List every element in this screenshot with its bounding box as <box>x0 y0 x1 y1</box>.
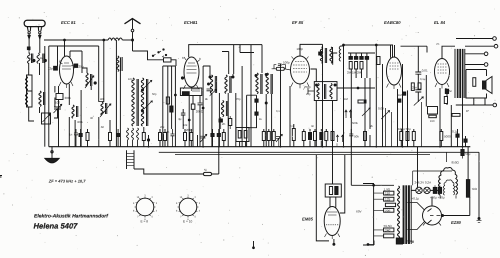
FM dipole antenna arrow <box>125 19 141 24</box>
svg-text:300k: 300k <box>65 96 72 100</box>
cap row c8 stubs <box>465 136 467 147</box>
ECH81 internal electrodes <box>187 63 197 73</box>
third bus <box>175 154 430 156</box>
heater choke b <box>132 128 134 147</box>
EZ80 anode bars <box>428 209 441 224</box>
IF2b core <box>271 74 272 94</box>
wire EM bottom stub <box>333 239 335 244</box>
padder comb stub <box>221 116 231 129</box>
wire ECH v6b <box>192 109 194 146</box>
speaker line 0 <box>456 38 493 40</box>
cathode resistor h1 <box>429 115 437 118</box>
res row r19 stubs <box>364 129 366 147</box>
res row r22 stubs <box>413 129 415 147</box>
comb res 1 <box>349 62 352 70</box>
wire EF v5 <box>315 101 317 147</box>
IF2a dot <box>255 75 257 77</box>
coupling cap 0.01 <box>415 72 421 74</box>
comb drop 2 <box>355 53 357 57</box>
osc box hatch <box>192 89 200 91</box>
wire EL v3 <box>462 98 464 147</box>
wire EL v1 <box>439 88 441 147</box>
svg-text:1,9Ω: 1,9Ω <box>384 187 391 191</box>
wire PSU feed h <box>351 184 394 186</box>
EM box capacitor <box>335 187 338 195</box>
wire EF v2 <box>271 94 273 147</box>
res row r14 <box>309 133 312 140</box>
trimmer t2 stub <box>278 138 280 146</box>
var coil L5 <box>101 102 103 115</box>
res row r6 <box>184 133 187 141</box>
output transformer bar 2 <box>459 49 461 98</box>
res row r5 <box>164 133 167 141</box>
cap row c3 stubs <box>117 129 119 147</box>
EF85 pins <box>291 57 309 89</box>
choke feed wire <box>446 152 448 162</box>
res row r7 stubs <box>190 129 192 147</box>
heater wire to EZ80 <box>408 203 425 230</box>
grid network box <box>428 107 438 115</box>
output transformer bar 1 <box>457 49 459 98</box>
svg-text:EABC80: EABC80 <box>384 20 401 25</box>
power transformer core bar 2 <box>405 185 407 244</box>
wire v1 <box>44 46 46 147</box>
wire det left <box>308 88 314 94</box>
res row r9 <box>262 132 265 141</box>
heater choke c <box>137 128 139 147</box>
oscillator padder block <box>182 92 189 96</box>
antenna lead left <box>28 34 30 53</box>
wire antenna to RF bus <box>44 39 108 41</box>
mid coil core <box>44 92 45 105</box>
FM dipole mast <box>132 20 134 52</box>
svg-text:E = 8: E = 8 <box>141 220 149 224</box>
bus junction dots <box>148 146 464 148</box>
AM det cap 2 stub <box>247 115 257 128</box>
cap row c3 <box>117 134 120 137</box>
svg-text:200Ω: 200Ω <box>196 110 204 114</box>
cap 50k stubs <box>350 129 352 147</box>
osc block cap black <box>170 106 173 112</box>
wire cathode net <box>58 86 60 147</box>
svg-text:EZ80: EZ80 <box>451 220 462 225</box>
tap box 220 <box>384 208 394 212</box>
wire choke frame <box>333 46 344 65</box>
wire EF v10 <box>369 78 371 129</box>
tone pot 0,04 arrow <box>381 111 389 119</box>
trimmer t1 stub <box>202 138 204 147</box>
wire EL v4 <box>473 98 475 105</box>
wire cap drop <box>57 46 59 66</box>
ratio det dot a <box>316 84 318 86</box>
wire ECH v10 <box>241 66 243 147</box>
cap row c2 stubs <box>80 129 82 147</box>
wire v5 <box>80 90 82 147</box>
primary rail left <box>373 184 375 246</box>
tap ticks to rail <box>374 193 384 236</box>
left bandfilter coil 2 <box>27 91 33 107</box>
svg-text:70p: 70p <box>236 98 241 101</box>
svg-text:250p: 250p <box>304 85 311 89</box>
EZ80 pins <box>423 223 441 226</box>
speaker terminal 0 <box>493 37 497 41</box>
AM det cap 1 stub <box>256 102 258 112</box>
IF1 dot primary <box>209 76 211 78</box>
primary block bottom <box>396 238 402 244</box>
switch block box <box>236 128 249 142</box>
wire k2 <box>54 86 56 93</box>
res row r17 stubs <box>325 129 327 147</box>
wire anode frame top <box>49 45 99 47</box>
svg-text:E = 10: E = 10 <box>183 220 193 224</box>
wire EABC v6 <box>425 75 427 107</box>
EM85 pins <box>325 234 340 240</box>
wire cap to pot <box>417 74 419 102</box>
filter cap 50u b <box>438 187 441 193</box>
speaker line 3 <box>465 64 484 66</box>
var coil L5 core <box>106 103 107 114</box>
wire EL84 anode up <box>442 46 455 58</box>
cap row c7 stubs <box>457 129 459 147</box>
wire v4 <box>74 120 76 147</box>
tap box 110 <box>384 191 394 195</box>
res row r1 stubs <box>87 129 89 147</box>
switch arrow pair AM <box>345 110 352 118</box>
svg-text:0,1μ: 0,1μ <box>452 130 458 134</box>
electrolytic cap 4u <box>181 113 186 115</box>
main ground bus <box>49 146 471 148</box>
ECC81 internal electrodes <box>62 63 71 69</box>
filter cap 50u a <box>433 187 436 193</box>
arrowhead left lead <box>28 35 30 39</box>
det cap dot <box>208 83 210 85</box>
screen resistor EABC <box>418 83 421 89</box>
wire EABC v4 <box>402 64 404 147</box>
trimmer capacitor left <box>42 113 51 124</box>
osc trimmer arrow upper <box>144 80 152 88</box>
svg-text:EF 85: EF 85 <box>292 20 304 25</box>
res row r2 stubs <box>109 120 111 147</box>
lead connector blob <box>27 47 31 51</box>
capacitor 25p block <box>74 64 77 67</box>
grid resistor box <box>191 104 195 109</box>
wire ECH top h <box>163 66 233 77</box>
IF3 block cap <box>319 52 323 55</box>
osc trimmer arrow lower <box>144 101 152 109</box>
res row r21 stubs <box>407 129 409 147</box>
plus terminal bar <box>477 221 482 223</box>
speaker terminal 1 <box>494 44 498 48</box>
wire psu top tick <box>413 171 452 185</box>
IF3 secondary winding <box>330 47 332 63</box>
triple diode tube EABC80 envelope <box>387 57 402 85</box>
ratio filter resistor <box>358 100 366 103</box>
EABC cathode cap a <box>403 92 406 95</box>
wire EF v7 <box>343 45 345 147</box>
IF1 primary coil <box>210 75 212 93</box>
svg-text:5000: 5000 <box>444 135 451 139</box>
ratio det dot b <box>334 84 336 86</box>
reservoir cap stub <box>462 147 464 159</box>
res row r8 stubs <box>223 129 225 147</box>
svg-text:10p: 10p <box>128 78 133 81</box>
comb drop 1 <box>350 53 352 57</box>
wire EM left loop <box>316 155 329 241</box>
cap 4n row <box>171 129 175 147</box>
power pentode EL84 envelope <box>435 59 450 85</box>
ratio det primary coil <box>317 84 319 99</box>
tap box 125 <box>384 197 394 201</box>
res row r18 <box>331 132 334 141</box>
svg-text:0,01: 0,01 <box>422 69 428 73</box>
grid RC combo cap 100p <box>278 64 282 66</box>
antenna coil L1 core <box>32 54 33 64</box>
dial lamp 2 <box>424 187 430 193</box>
svg-text:100: 100 <box>55 101 60 105</box>
wire comb down <box>351 59 367 78</box>
wire ECH v9 <box>202 66 204 147</box>
EF85 internal grid dashes <box>293 62 307 73</box>
grid coil L3 core <box>91 74 92 86</box>
wire comb to fuse line <box>134 169 204 174</box>
wire PSU feed v <box>350 147 352 186</box>
wire lamps feed v <box>417 147 419 188</box>
svg-text:ZF = 473 kHz + 10,7: ZF = 473 kHz + 10,7 <box>48 179 86 184</box>
left bandfilter coil 2 winding <box>26 93 28 107</box>
trimmer cap C4 plates <box>54 107 61 109</box>
speaker terminal 4 <box>493 103 497 107</box>
power transformer secondary line <box>410 185 412 244</box>
wire choke to FM antenna node <box>122 39 132 41</box>
res row r20 <box>400 132 403 141</box>
svg-text:10k: 10k <box>183 124 188 127</box>
ratio detector box <box>314 82 337 101</box>
op tube ECC81 envelope <box>60 56 74 84</box>
junction dot FM node <box>132 39 134 41</box>
IF3 primary winding <box>320 47 322 63</box>
wire box to tube <box>330 197 336 208</box>
IF2b dot bottom <box>265 102 267 104</box>
svg-text:+0,1μ: +0,1μ <box>412 197 420 201</box>
coupling cap plates <box>198 103 203 105</box>
svg-text:25p: 25p <box>306 93 311 96</box>
wire ECH v3 <box>171 66 173 129</box>
switch block res b <box>244 131 247 139</box>
IF2b dot top <box>265 74 267 76</box>
cathode resistor box 100 <box>56 94 63 100</box>
stub row s2 <box>197 135 199 147</box>
res row r20 stubs <box>400 129 402 147</box>
trimmer arrow left <box>43 114 50 122</box>
EABC80 pins <box>387 84 402 90</box>
choke FM coil <box>339 46 340 61</box>
socket diagram 1 circle <box>136 198 154 216</box>
EZ80 output dot <box>442 215 444 217</box>
osc coil L4 core <box>77 106 78 117</box>
wire EL v2 <box>450 105 452 147</box>
tie wire v6 v7 <box>99 101 104 103</box>
left bandfilter coil 1 <box>27 75 33 91</box>
res row r3 <box>142 133 145 141</box>
junction dot e3 <box>202 107 204 109</box>
svg-text:2M 1M 2M: 2M 1M 2M <box>347 71 362 75</box>
lamp wire <box>411 189 438 191</box>
wire EF screen top <box>300 44 323 56</box>
dial lamp 1 cross <box>417 188 422 193</box>
cap row c2 <box>79 134 82 137</box>
tap box 240 lower <box>384 228 394 232</box>
junction dot L2 <box>44 59 46 61</box>
svg-text:220: 220 <box>385 209 391 213</box>
diode comb bus <box>348 52 375 54</box>
left coil box assembly outline <box>29 63 40 75</box>
svg-text:2n: 2n <box>219 120 222 123</box>
junction dot e2 <box>188 119 190 121</box>
comb cap 3 <box>360 57 363 60</box>
cap row c7 <box>456 134 459 137</box>
wire EABC extra v a <box>385 108 387 147</box>
svg-text:EM85: EM85 <box>302 217 314 222</box>
cap 50k row <box>349 134 353 136</box>
res row r8 <box>222 133 225 141</box>
res row r14 stubs <box>309 129 311 147</box>
wire EABC extra v b <box>391 112 393 147</box>
junction dot top b <box>375 44 377 46</box>
scattered value labels <box>28 57 469 129</box>
switch arrows pair <box>336 135 343 142</box>
stray stub dot <box>253 247 255 249</box>
grid coil L3 <box>86 73 88 86</box>
res row r6 stubs <box>184 129 186 147</box>
svg-text:240: 240 <box>385 228 391 232</box>
svg-text:125: 125 <box>385 198 391 202</box>
wire mid assembly down <box>39 107 41 113</box>
IF3 core <box>325 48 326 63</box>
speaker line 2 <box>465 53 484 55</box>
svg-text:7n: 7n <box>436 42 440 46</box>
svg-text:500k: 500k <box>352 122 358 125</box>
LW osc coil left winding <box>132 78 134 126</box>
choke right lead <box>440 195 456 198</box>
IF1 primary core <box>215 76 216 93</box>
ECH81 pins <box>184 57 200 91</box>
ground symbol <box>45 158 59 163</box>
dial lamp 2 cross <box>425 188 430 193</box>
cap row c4 stubs <box>212 129 214 147</box>
comb drop 4 <box>366 53 368 57</box>
svg-text:2×6,3V 0,2A: 2×6,3V 0,2A <box>415 181 432 185</box>
svg-text:50p: 50p <box>152 93 157 96</box>
wire right frame vertical <box>98 46 100 101</box>
wire IF1 drops <box>212 93 236 147</box>
speaker terminal 3 <box>484 63 488 67</box>
svg-text:100p: 100p <box>283 61 290 65</box>
wire EM feed <box>332 147 334 184</box>
wire ECH top frame <box>189 45 262 74</box>
svg-text:40k: 40k <box>100 98 105 101</box>
wire v8 <box>115 40 117 147</box>
mains choke 850 outline inner <box>443 180 454 195</box>
wire left frame vertical <box>48 46 50 147</box>
res row r11 <box>272 132 275 141</box>
loudspeaker magnet <box>482 81 486 90</box>
cap row c4 <box>211 134 214 137</box>
wire v9 <box>119 58 121 147</box>
EM network box <box>325 184 341 197</box>
mains choke 850 outline outer <box>439 168 458 196</box>
junction dot top a <box>343 44 345 46</box>
antenna stem <box>27 27 41 32</box>
magic eye EM85 envelope <box>324 207 340 236</box>
svg-text:100p: 100p <box>296 47 303 51</box>
osc feedback resistor <box>166 97 169 104</box>
junction dot RF bus <box>64 39 66 41</box>
comb res 2 <box>355 62 358 70</box>
output transformer right line <box>464 49 466 98</box>
padder comb res a <box>229 119 232 126</box>
capacitor block C1 <box>54 66 58 70</box>
wire ECH top inner <box>222 52 229 75</box>
IF1 dot secondary <box>232 76 234 78</box>
switch dot d <box>165 54 166 55</box>
wire left assembly down <box>29 107 34 121</box>
FM IF coil right <box>117 56 119 71</box>
RF choke on top bus <box>108 38 122 40</box>
antenna lead right <box>39 34 41 53</box>
svg-text:Elektro-Akustik Hartmannsdorf: Elektro-Akustik Hartmannsdorf <box>34 214 109 220</box>
wire EF to EABC top <box>344 44 394 46</box>
band switch box <box>164 58 172 62</box>
wire fuse to bus <box>212 147 219 174</box>
wire v6 <box>98 101 100 147</box>
res row r23 <box>440 132 443 141</box>
cathode resistor h2 <box>452 114 460 117</box>
power transformer primary winding <box>398 186 400 239</box>
cap row c5 <box>217 134 220 137</box>
res row r9 stubs <box>263 129 265 147</box>
var coil arrow <box>100 104 111 117</box>
scale lamp fuse <box>204 172 212 175</box>
AM ferrite antenna body <box>24 20 45 26</box>
ECC81 cathode pins <box>59 62 74 88</box>
res row r12 tall <box>292 129 295 141</box>
FM IF coil core <box>121 57 122 71</box>
svg-text:12p: 12p <box>48 67 53 71</box>
EM85 internal dashes <box>326 224 339 226</box>
volume pot arrow <box>414 97 424 106</box>
wire EM right pin <box>340 155 345 213</box>
primary bottom wire <box>369 244 374 246</box>
wire EF v1 <box>265 94 267 147</box>
switch dot c <box>163 49 164 50</box>
svg-text:EL 84: EL 84 <box>434 20 446 25</box>
wire EF v9 <box>364 78 366 147</box>
res row r1 <box>86 133 89 141</box>
wire IF3 down <box>323 46 333 147</box>
cap row c8 <box>464 139 467 142</box>
tap box mid <box>385 203 395 206</box>
trimmer cap C4 arrow <box>54 104 62 113</box>
wire v2 <box>54 98 56 108</box>
AM det cap 2 <box>255 112 258 115</box>
osc coil L4 <box>72 105 74 118</box>
wire EABC grid pair <box>391 45 395 58</box>
left bandfilter coil 1 winding <box>26 77 28 91</box>
res row r4 stubs <box>159 129 161 147</box>
wire EZ80 top stub <box>431 197 433 207</box>
wire EABC v2 <box>382 64 384 147</box>
cap 1n row <box>74 129 78 147</box>
